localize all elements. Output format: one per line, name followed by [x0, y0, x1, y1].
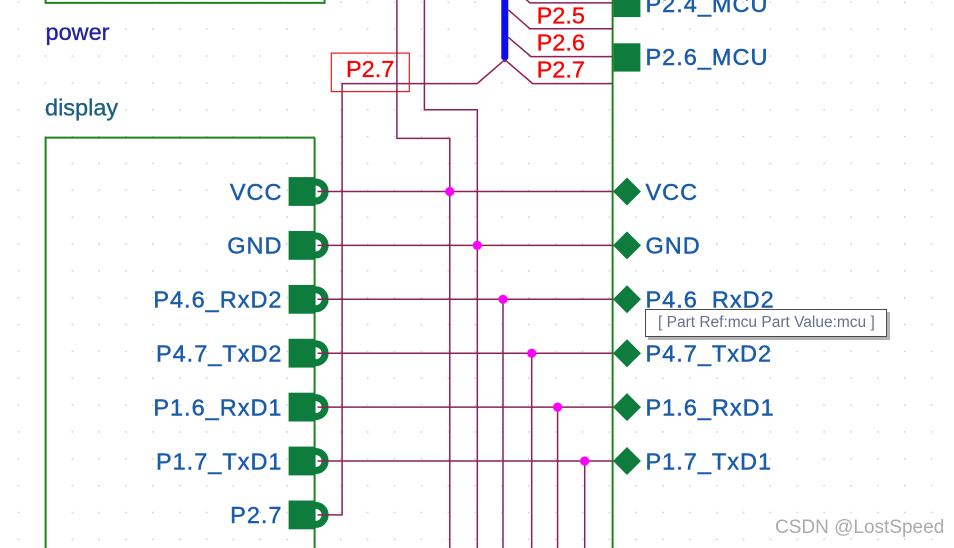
wire P4.6_RxD2 row	[318, 298, 614, 300]
mcu diamond terminal VCC	[613, 178, 641, 206]
svg-text:P2.7: P2.7	[537, 56, 585, 82]
junction P4.7	[527, 349, 536, 358]
pin P1.7_TxD1 (display)	[289, 447, 326, 476]
pin P2.7 (display)	[289, 501, 326, 530]
subcircuit box "power" (bottom edge, partially offscreen)	[46, 0, 325, 3]
mcu diamond terminal P1.6_RxD1	[613, 393, 641, 421]
subcircuit box "display"	[46, 138, 315, 548]
junction VCC	[445, 187, 454, 196]
wire from offscreen top to GND column	[424, 0, 477, 548]
svg-text:GND: GND	[227, 233, 282, 259]
wire display box right edge	[314, 138, 316, 548]
svg-text:P1.6_RxD1: P1.6_RxD1	[153, 394, 282, 420]
wire P4.7_TxD2 row	[318, 352, 614, 354]
bus (blue)	[501, 0, 508, 63]
wire from offscreen top to VCC column	[397, 0, 450, 548]
svg-text:power: power	[46, 19, 110, 45]
wire P1.6 column down	[557, 407, 559, 548]
svg-text:P1.7_TxD1: P1.7_TxD1	[156, 448, 283, 474]
mcu body left edge	[612, 0, 614, 548]
svg-text:P2.7: P2.7	[230, 502, 282, 528]
tooltip Part Ref:mcu	[645, 309, 887, 337]
junction P1.7	[580, 456, 589, 465]
wire P4.7 column down	[531, 353, 533, 548]
wire P1.7 column down	[584, 461, 586, 548]
mcu square pin P2.4	[614, 0, 641, 17]
pin P4.6_RxD2 (display)	[289, 285, 326, 314]
wire P1.6_RxD1 row	[318, 406, 614, 408]
wire GND row	[318, 244, 614, 246]
svg-text:VCC: VCC	[230, 179, 283, 205]
svg-text:P2.7: P2.7	[346, 56, 394, 82]
mcu diamond terminal P1.7_TxD1	[613, 447, 641, 475]
wire bus branch P2.4 row	[508, 0, 612, 3]
mcu diamond terminal P4.6_RxD2	[613, 285, 641, 313]
svg-text:display: display	[45, 95, 118, 121]
wire P1.7_TxD1 row	[318, 460, 614, 462]
wire bus branch P2.6 row	[508, 37, 612, 56]
selection box around net label P2.7	[331, 53, 409, 92]
svg-text:P2.4_MCU: P2.4_MCU	[646, 0, 769, 17]
pin GND (display)	[289, 231, 326, 260]
svg-text:P1.7_TxD1: P1.7_TxD1	[646, 448, 773, 474]
svg-text:GND: GND	[646, 233, 701, 259]
mcu diamond terminal GND	[613, 231, 641, 259]
mcu diamond terminal P4.7_TxD2	[613, 339, 641, 367]
mcu square pin P2.6	[614, 43, 641, 71]
junction GND	[473, 241, 482, 250]
pin VCC (display)	[289, 177, 326, 206]
svg-text:P4.7_TxD2: P4.7_TxD2	[156, 341, 283, 367]
wire bus branch P2.7 right	[505, 60, 613, 84]
svg-text:P4.7_TxD2: P4.7_TxD2	[646, 341, 773, 367]
svg-text:P2.6_MCU: P2.6_MCU	[646, 44, 769, 70]
pin P1.6_RxD1 (display)	[289, 393, 326, 422]
svg-text:P2.6: P2.6	[537, 30, 585, 56]
junction P4.6	[498, 295, 507, 304]
junction P1.6	[553, 403, 562, 412]
wire VCC row	[318, 191, 614, 193]
svg-text:P1.6_RxD1: P1.6_RxD1	[646, 394, 775, 420]
pin P4.7_TxD2 (display)	[289, 339, 326, 368]
wire bus branch P2.5 row	[508, 10, 612, 29]
watermark CSDN @LostSpeed	[775, 517, 944, 539]
svg-text:P2.5: P2.5	[537, 2, 585, 28]
svg-text:VCC: VCC	[646, 179, 699, 205]
wire P4.6 column down	[502, 299, 504, 548]
wire net P2.7 from bus to display pin	[318, 60, 505, 515]
svg-text:P4.6_RxD2: P4.6_RxD2	[153, 287, 282, 313]
